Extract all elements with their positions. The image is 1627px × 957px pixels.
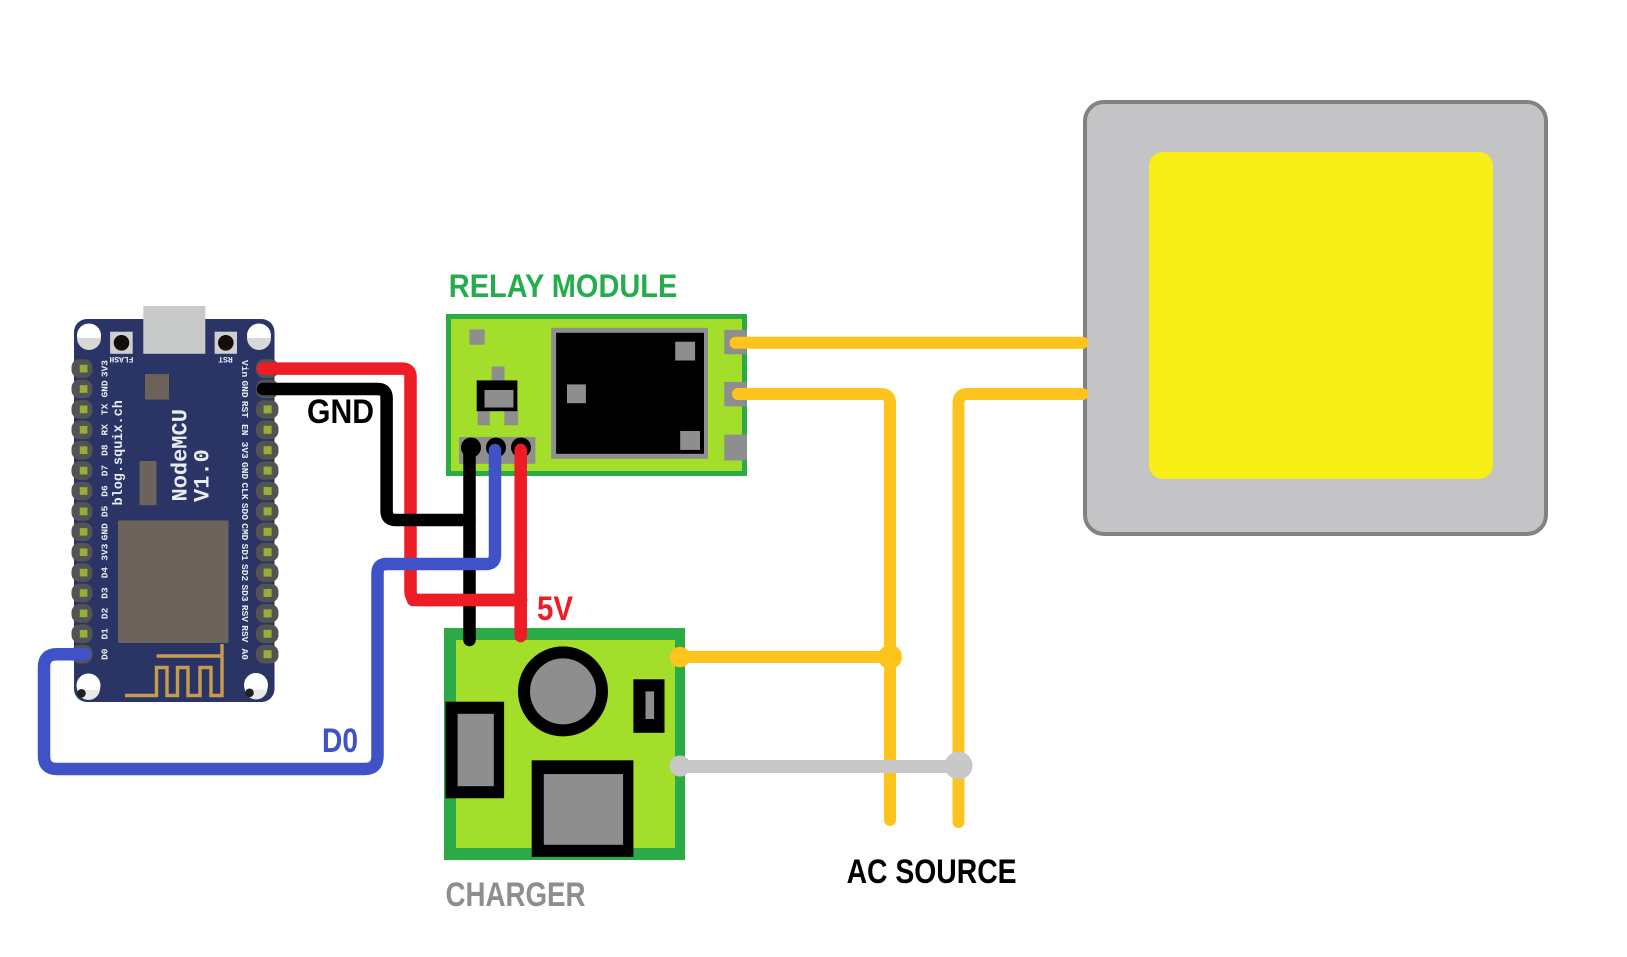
charger transformer T1 xyxy=(532,760,634,857)
svg-text:blog.squix.ch: blog.squix.ch xyxy=(112,400,127,505)
pin A0 (right header) xyxy=(239,645,279,664)
pin Vin (right header) xyxy=(239,359,279,378)
pin GND (right header) xyxy=(239,461,279,480)
pin D4 (left header) xyxy=(72,563,111,582)
svg-text:FLASH: FLASH xyxy=(109,354,133,363)
svg-text:GND: GND xyxy=(239,380,250,397)
svg-text:RSV: RSV xyxy=(239,605,250,622)
svg-text:GND: GND xyxy=(100,523,111,540)
svg-text:D0: D0 xyxy=(322,722,358,760)
pin D3 (left header) xyxy=(72,584,111,603)
pin 3V3 (right header) xyxy=(239,441,279,460)
relay input pin header xyxy=(459,437,535,464)
charger capacitor C1 xyxy=(518,646,608,736)
pin GND (left header) xyxy=(72,380,111,399)
svg-text:GND: GND xyxy=(239,462,250,479)
svg-text:3V3: 3V3 xyxy=(239,442,250,459)
mounting hole top-right xyxy=(247,324,271,351)
svg-text:RX: RX xyxy=(100,424,111,436)
svg-text:EN: EN xyxy=(239,424,250,436)
pin CLK (right header) xyxy=(239,482,279,501)
pin RSV (right header) xyxy=(239,604,279,623)
charger component left xyxy=(446,702,505,799)
svg-text:D5: D5 xyxy=(100,505,111,517)
pin D8 (left header) xyxy=(72,441,111,460)
wire AC yellow: charger input to junction xyxy=(680,651,890,663)
small IC chip xyxy=(145,374,169,400)
pin 3V3 (left header) xyxy=(72,359,111,378)
svg-text:CHARGER: CHARGER xyxy=(446,876,586,914)
charger AC input pin gray xyxy=(670,756,691,777)
svg-text:SD2: SD2 xyxy=(239,564,250,581)
relay output pad COM xyxy=(724,382,747,407)
svg-text:D2: D2 xyxy=(100,607,111,619)
relay pin VCC xyxy=(511,438,531,458)
pin SD3 (right header) xyxy=(239,584,279,603)
PCB antenna xyxy=(125,644,222,696)
svg-text:3V3: 3V3 xyxy=(100,360,111,377)
pin 3V3 (left header) xyxy=(72,543,111,562)
pin D2 (left header) xyxy=(72,604,111,623)
pin GND (left header) xyxy=(72,523,111,542)
pin CMD (right header) xyxy=(239,523,279,542)
svg-text:CMD: CMD xyxy=(239,523,250,540)
small IC chip 2 xyxy=(140,461,157,505)
pin RST (right header) xyxy=(239,400,279,419)
wire 5V red segment over GND (junction to charger) xyxy=(413,560,521,636)
pin EN (right header) xyxy=(239,421,279,440)
svg-text:D6: D6 xyxy=(100,485,111,497)
svg-text:RSV: RSV xyxy=(239,625,250,642)
relay pin IN xyxy=(486,438,506,458)
pin GND (right header) xyxy=(239,380,279,399)
svg-text:Vin: Vin xyxy=(239,360,250,377)
RST button xyxy=(215,332,237,354)
charger component right xyxy=(633,679,664,733)
mounting hole top-left xyxy=(77,324,101,351)
wire 5V red: NodeMCU Vin to relay VCC and charger +5V xyxy=(263,369,521,636)
NodeMCU dev board xyxy=(74,319,275,702)
svg-text:AC SOURCE: AC SOURCE xyxy=(847,853,1017,891)
svg-text:V1.0: V1.0 xyxy=(191,449,216,502)
pin D1 (left header) xyxy=(72,625,111,644)
USB connector xyxy=(143,306,205,354)
junction yellow AC xyxy=(878,645,902,669)
pin SD1 (right header) xyxy=(239,543,279,562)
relay module solder pad xyxy=(469,329,484,344)
svg-text:D1: D1 xyxy=(100,628,111,640)
FLASH button xyxy=(110,332,133,354)
charger AC input pin yellow xyxy=(670,647,691,668)
svg-text:CLK: CLK xyxy=(239,482,250,499)
mounting hole bottom-right xyxy=(244,673,268,699)
wire AC neutral gray: charger to AC source xyxy=(680,760,959,773)
wire AC yellow: relay COM to AC source xyxy=(738,394,890,820)
svg-text:D3: D3 xyxy=(100,587,111,599)
svg-text:RST: RST xyxy=(218,354,233,363)
svg-text:SD3: SD3 xyxy=(239,584,250,601)
panel light fixture xyxy=(1085,102,1546,534)
pin D7 (left header) xyxy=(72,461,111,480)
pin RSV (right header) xyxy=(239,625,279,644)
svg-text:SDO: SDO xyxy=(239,503,250,520)
svg-text:TX: TX xyxy=(100,403,111,415)
pin SDO (right header) xyxy=(239,502,279,521)
pin D0 (left header) xyxy=(72,645,111,664)
svg-text:D8: D8 xyxy=(100,444,111,456)
mounting hole bottom-left xyxy=(77,674,101,700)
svg-text:D7: D7 xyxy=(100,465,111,477)
svg-text:5V: 5V xyxy=(537,590,573,628)
svg-text:SD1: SD1 xyxy=(239,544,250,561)
relay K1 xyxy=(551,328,708,459)
relay output pad NC xyxy=(724,435,747,461)
svg-text:GND: GND xyxy=(307,393,374,431)
svg-text:RST: RST xyxy=(239,401,250,418)
svg-text:3V3: 3V3 xyxy=(100,543,111,560)
wire AC yellow: AC source to panel light xyxy=(959,394,1083,822)
wire GND black: NodeMCU GND to relay GND and charger GND xyxy=(263,389,470,640)
svg-text:D4: D4 xyxy=(100,567,111,579)
charger module PCB xyxy=(444,628,685,860)
pin SD2 (right header) xyxy=(239,563,279,582)
junction gray AC neutral xyxy=(945,752,973,780)
wire AC live yellow: relay NO to panel light xyxy=(736,337,1083,349)
svg-text:RELAY MODULE: RELAY MODULE xyxy=(449,268,678,304)
pin TX (left header) xyxy=(72,400,111,419)
pin RX (left header) xyxy=(72,421,111,440)
relay module PCB xyxy=(446,314,747,476)
pin D6 (left header) xyxy=(72,482,111,501)
wire D0 blue: NodeMCU D0 to relay IN xyxy=(44,450,495,769)
transistor Q1 xyxy=(477,367,519,426)
ESP8266 module shield xyxy=(118,521,229,644)
svg-text:D0: D0 xyxy=(100,648,111,660)
pin D5 (left header) xyxy=(72,502,111,521)
svg-text:GND: GND xyxy=(100,380,111,397)
relay output pad NO xyxy=(724,330,747,355)
svg-text:A0: A0 xyxy=(239,648,250,660)
relay pin GND xyxy=(461,438,481,458)
